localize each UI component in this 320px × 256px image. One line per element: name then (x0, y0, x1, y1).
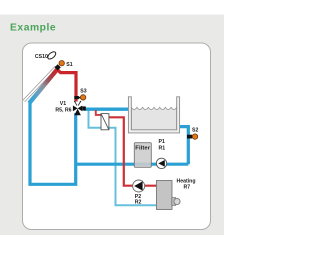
svg-text:S1: S1 (66, 62, 72, 68)
svg-text:V1: V1 (60, 101, 66, 107)
svg-text:R2: R2 (135, 200, 142, 206)
svg-text:P1: P1 (159, 139, 165, 145)
svg-text:Filter: Filter (135, 146, 150, 152)
svg-text:S3: S3 (80, 89, 86, 95)
svg-text:S2: S2 (192, 128, 198, 134)
svg-text:Example: Example (10, 23, 56, 34)
svg-text:R7: R7 (184, 185, 191, 191)
svg-text:R5, R6: R5, R6 (55, 108, 71, 114)
svg-text:CS10: CS10 (35, 54, 48, 60)
svg-text:Heating: Heating (177, 179, 196, 185)
svg-text:R1: R1 (159, 145, 166, 151)
